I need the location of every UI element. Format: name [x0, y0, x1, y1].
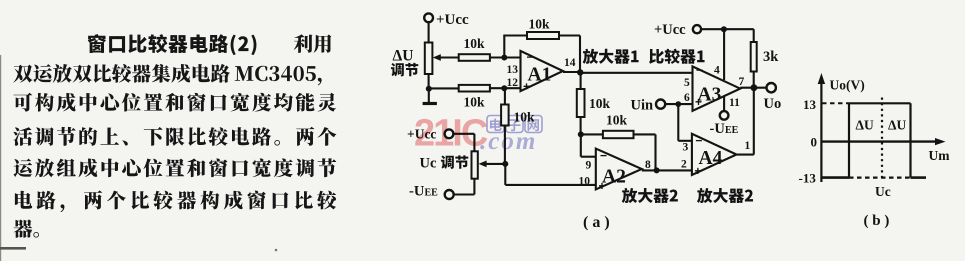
svg-text:10k: 10k [606, 113, 628, 128]
junction node A2 output [654, 167, 660, 173]
svg-text:10: 10 [579, 176, 591, 188]
potentiometer RP2 Uc adjust (body) [472, 151, 478, 178]
potentiometer RP1 ΔU adjust (body) [425, 43, 433, 75]
svg-text:+: + [523, 79, 530, 93]
wire feedback up from pin13 node [503, 36, 505, 58]
svg-text:9: 9 [586, 160, 592, 172]
potentiometer RP2 wiper arrow [481, 163, 505, 165]
label 放大器2 (under A2) [622, 188, 678, 203]
svg-text:( b ): ( b ) [864, 213, 890, 229]
wire A3 output to Uo [740, 87, 766, 89]
svg-text:14: 14 [564, 57, 576, 69]
graph axes: Uo(V) vs Um [820, 78, 822, 182]
svg-text:Uo(V): Uo(V) [830, 78, 865, 93]
wire A1 output down to R4 [580, 72, 582, 89]
junction node A1 pin12 [501, 85, 507, 91]
scan artifact: bottom-left smudge [0, 247, 26, 250]
watermark 21IC.com [414, 113, 542, 156]
svg-text:10k: 10k [589, 96, 611, 111]
svg-text:11: 11 [729, 97, 740, 109]
svg-text:13: 13 [803, 97, 817, 112]
wire A2 pin9 [580, 134, 582, 156]
wire R2 to node pin12 [490, 87, 521, 89]
resistor R4 10k (A1 out to A2 in) [577, 89, 585, 117]
svg-text:+: + [695, 95, 702, 109]
svg-text:13: 13 [507, 64, 519, 76]
svg-text:ΔU: ΔU [888, 118, 906, 133]
junction node A2 inverting input [578, 131, 584, 137]
svg-text:6: 6 [684, 92, 690, 104]
level -13 dashed [849, 177, 911, 179]
svg-text:4: 4 [714, 65, 720, 77]
svg-text:+: + [599, 179, 606, 193]
power terminal -UEE (middle left) [445, 190, 454, 199]
svg-text:ΔU: ΔU [393, 48, 414, 65]
wire +Ucc to RP2 top [453, 133, 474, 135]
svg-text:−: − [696, 63, 703, 77]
svg-text:0: 0 [811, 135, 818, 150]
label 比较器1 [649, 49, 704, 64]
wire A3 pin4 to +Ucc [723, 29, 725, 80]
wire R4 to A2 inverting node [580, 117, 582, 134]
dotted Uc vertical [881, 98, 883, 178]
svg-text:10k: 10k [514, 110, 536, 125]
svg-text:2: 2 [681, 159, 687, 171]
level -13 solid right [911, 176, 927, 179]
junction node A1 pin13 [501, 55, 507, 61]
wire pin12 node down to R6 [504, 88, 506, 104]
resistor R2 10k (pot bottom to A1 pin12) [429, 87, 459, 89]
svg-text:Uc: Uc [875, 184, 891, 199]
wire +Ucc to 3k [701, 28, 754, 30]
svg-text:Uin: Uin [631, 98, 654, 114]
svg-text:EE: EE [725, 125, 739, 136]
wire A1 output to A3 pin5 [563, 71, 580, 73]
svg-text:−: − [527, 50, 534, 64]
junction node A1 output [577, 69, 583, 75]
transfer pulse right edge [909, 103, 911, 177]
wire RP2 bottom to -UEE [473, 179, 475, 195]
junction node Uo [751, 84, 758, 91]
wire node to R5 [581, 133, 603, 135]
svg-text:A2: A2 [602, 167, 626, 188]
svg-text:10k: 10k [529, 17, 551, 32]
output terminal Uo [767, 83, 776, 92]
ground symbol [428, 89, 430, 103]
label 放大器1 [583, 49, 639, 64]
paragraph: description text [13, 34, 336, 238]
svg-text:5: 5 [684, 77, 690, 89]
svg-text:7: 7 [739, 76, 745, 88]
wire RP1 bottom to ground node [428, 74, 430, 89]
svg-text:A4: A4 [699, 148, 723, 169]
wire feedback to A1 output [559, 34, 580, 36]
svg-text:A1: A1 [528, 65, 552, 86]
wire R5 to A2 output [634, 133, 656, 135]
level -13 solid left [821, 176, 849, 179]
junction node Uc wiper [502, 161, 508, 167]
svg-text:+: + [694, 164, 701, 178]
wire Uin node down to A4 pin3 [677, 104, 679, 141]
junction node Uin [675, 101, 681, 107]
svg-text:Uo: Uo [764, 96, 782, 112]
resistor R7 3k [751, 42, 757, 72]
wire A4 output up to Uo node [737, 154, 754, 156]
op-amp A2 [596, 149, 642, 190]
wire A3 pin11 to -UEE terminal [723, 97, 725, 112]
svg-text:12: 12 [507, 77, 519, 89]
svg-text:.com: .com [480, 128, 537, 155]
resistor R3 10k (A1 feedback) [527, 32, 559, 39]
comparator A3 [693, 66, 741, 110]
svg-text:1: 1 [745, 140, 751, 152]
svg-text:EE: EE [425, 188, 439, 199]
transfer pulse top [849, 102, 911, 104]
wire R1 to node pin13 [490, 56, 521, 58]
dashed level +13 [822, 102, 849, 104]
svg-text:10k: 10k [464, 36, 486, 51]
scan artifact: left edge line [0, 55, 1, 261]
power terminal -UEE (A3 pin11) [720, 111, 729, 120]
svg-text:-U: -U [710, 121, 726, 137]
wire Uin to A3 pin6 [665, 103, 693, 105]
junction node RP1 bottom [426, 86, 432, 92]
svg-text:ΔU: ΔU [856, 118, 874, 133]
wire +Ucc to potentiometer RP1 [428, 22, 430, 43]
wire 3k to Uo node [753, 72, 755, 88]
svg-text:Um: Um [929, 148, 951, 163]
wire A2 output to A4 pin2 [642, 169, 692, 171]
wire R6 down to Uc node [504, 126, 506, 164]
svg-text:-U: -U [409, 184, 425, 200]
wire Uc node down to A2 pin10 [504, 164, 506, 185]
resistor R1 10k (wiper to A1 pin13) [459, 54, 490, 61]
resistor R5 10k (A2 feedback) [603, 131, 634, 138]
potentiometer RP1 wiper arrow [436, 56, 459, 58]
svg-text:+Ucc: +Ucc [654, 22, 686, 38]
svg-text:( a ): ( a ) [583, 214, 610, 231]
svg-text:3k: 3k [763, 49, 779, 65]
power terminal +Ucc (middle left) [445, 129, 454, 138]
svg-text:+Ucc: +Ucc [436, 12, 469, 28]
svg-text:8: 8 [645, 159, 651, 171]
op-amp A1 [521, 51, 564, 91]
scan artifact: small dot [275, 249, 278, 252]
power terminal +Ucc (top left) [424, 13, 433, 22]
label 放大器2 (under A4) [697, 188, 753, 203]
junction node +Ucc [721, 26, 727, 32]
svg-text:−: − [600, 149, 607, 163]
svg-text:10k: 10k [464, 95, 486, 110]
transfer pulse left edge [848, 103, 850, 177]
svg-text:−: − [695, 134, 702, 148]
svg-text:+Ucc: +Ucc [407, 127, 436, 142]
svg-text:-13: -13 [799, 171, 817, 186]
comparator A4 [692, 134, 737, 175]
resistor R6 10k (pin12 node to Uc wiper node) [501, 105, 509, 126]
svg-text:Uc: Uc [420, 156, 437, 172]
svg-text:3: 3 [683, 142, 689, 154]
